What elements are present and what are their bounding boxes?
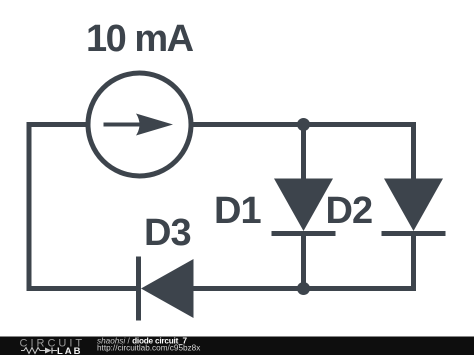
CircuitLab logo xyxy=(20,338,86,355)
footer bar xyxy=(0,337,474,355)
wire left vertical xyxy=(27,122,32,291)
wire top right segment xyxy=(191,122,416,127)
current source xyxy=(88,73,191,176)
wire bottom right segment xyxy=(190,286,416,291)
svg-text:10 mA: 10 mA xyxy=(86,18,194,60)
wire bottom left segment xyxy=(27,286,140,291)
diode D2 xyxy=(382,179,446,234)
svg-text:LAB: LAB xyxy=(57,346,83,355)
wire top left segment xyxy=(27,122,89,127)
node junction top xyxy=(297,118,310,131)
svg-text:D1: D1 xyxy=(214,190,261,232)
diode D1 xyxy=(272,179,336,234)
wire right vertical top xyxy=(411,122,416,181)
diode D3 xyxy=(139,257,194,321)
svg-text:http://circuitlab.com/c95bz8x: http://circuitlab.com/c95bz8x xyxy=(97,343,200,352)
node junction bottom xyxy=(297,282,310,295)
wire right vertical bottom xyxy=(411,234,416,292)
svg-text:D2: D2 xyxy=(326,190,373,232)
wire middle vertical top xyxy=(301,125,306,182)
wire middle vertical bottom xyxy=(301,234,306,292)
svg-text:D3: D3 xyxy=(144,212,191,254)
